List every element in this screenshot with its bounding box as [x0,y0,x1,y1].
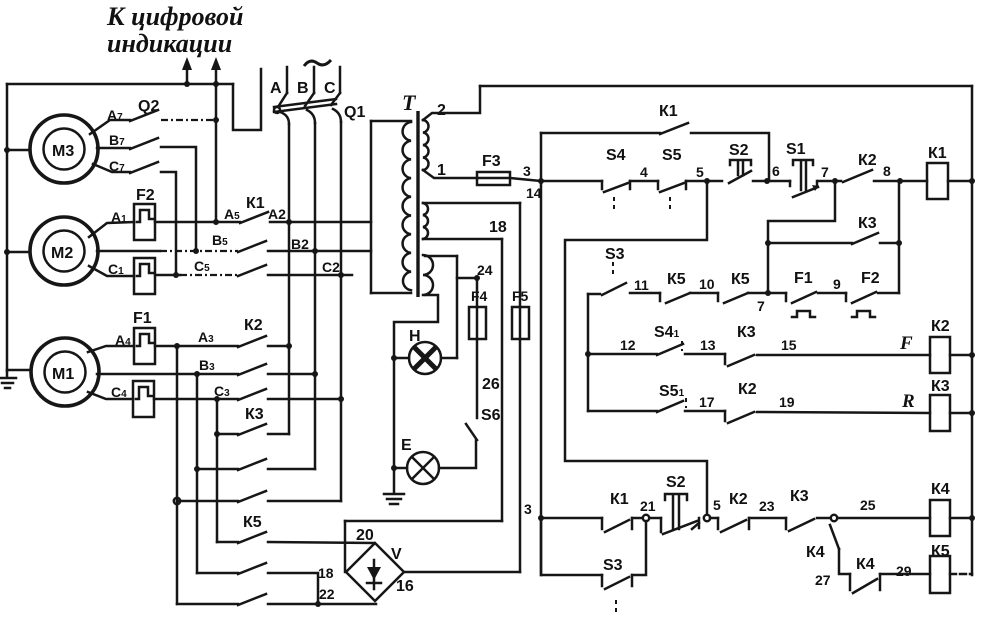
node: arrow junction left [184,81,190,87]
wire: F1 to F2 [818,292,846,295]
svg-text:S6: S6 [481,407,501,424]
wire: E left lead [394,467,407,470]
wire: M2 to rail [7,251,30,254]
svg-text:10: 10 [699,276,715,292]
svg-text:К4: К4 [856,556,875,573]
node: riser tap 12 [585,351,591,357]
contact K1 bottom [602,518,632,532]
svg-text:S2: S2 [666,474,686,491]
fuse F4 [469,307,486,339]
node 6 [764,178,770,184]
column A2 [288,124,291,346]
node 7 [832,178,838,184]
svg-text:S1: S1 [786,141,806,158]
wire: H right lead [441,357,457,360]
wire: indication tap down to A5 row [215,84,218,222]
svg-text:T: T [402,90,417,115]
svg-text:27: 27 [815,572,831,588]
wire: right supply rail [971,86,974,575]
node: A2 junction [286,219,292,225]
node: M3 rail junction [4,147,10,153]
svg-text:5: 5 [696,164,704,180]
wire: node21 to S2 [650,517,661,520]
svg-text:24: 24 [477,262,493,278]
switch S5 aux [657,398,686,412]
svg-text:1: 1 [437,162,446,179]
wire: C5 row dashed part [180,274,238,276]
contact K5 pole 1 [217,532,374,543]
svg-text:Е: Е [401,437,412,454]
svg-text:С2: С2 [322,259,340,275]
svg-text:F1: F1 [133,310,152,327]
wire: S4 to K3 contact [685,353,725,356]
wire: node 8 column down [898,181,901,293]
wire: C3 row [154,398,238,401]
contact K2 NC [725,411,754,423]
wire: S5 to node 5 [686,180,722,183]
svg-text:F: F [899,333,913,354]
arrow to digital indication (left) [182,57,192,84]
switch Q1 disconnector blades and tie bar [274,93,341,124]
svg-text:3: 3 [524,501,532,517]
node: arrow junction right [213,81,219,87]
wire: K3 branch to node 8 column [880,242,899,245]
svg-text:3: 3 [523,163,531,179]
contact K2 bottom [718,518,749,532]
svg-text:К3: К3 [858,215,877,232]
wire: node 7 drop to K3 branch [768,181,835,293]
svg-text:К3: К3 [790,488,809,505]
svg-text:23: 23 [759,498,775,514]
node: rail at K4 [969,515,975,521]
switch S6 [466,424,477,440]
svg-text:12: 12 [620,337,636,353]
coil K3 [930,395,950,431]
wire: M1 to rail/ground [7,369,31,372]
wire: rung 12 [588,353,657,356]
svg-text:9: 9 [833,276,841,292]
wire: B5 row dashed part [160,250,238,252]
wire: 15 to K2 coil [757,354,930,357]
wire: bottom rung start [541,517,602,520]
wire: A3 row [155,345,238,348]
wire: M3 to rail [7,149,30,152]
node: column at K3 branch [896,240,902,246]
column B3 [196,374,199,573]
svg-text:F2: F2 [861,270,880,287]
wire: S5 to K2 contact [685,410,725,413]
wire: K5a to K5b [690,292,718,295]
contact K2 pole C [238,389,266,400]
contact K3 (NC interlock) [852,233,878,244]
contact K1 pole C [238,265,266,276]
node 25 (terminal) [831,515,837,521]
svg-text:К цифровой: К цифровой [106,2,243,31]
svg-text:К1: К1 [246,195,265,212]
node: lamp rail top [391,355,397,361]
contact K2 pole B [238,364,266,375]
pushbutton S2 (stop, NC) [729,160,751,183]
wire: bridge DC out 16 [404,571,520,574]
left ground rail [6,84,9,371]
wire: K4 branch down [839,549,850,574]
wire: column to bridge AC (via 521) [501,239,504,521]
wire: control left rail (net 3/14) [540,133,543,575]
wire: S6 to E lamp [439,440,476,468]
wire: winding2 top lead to F5 column [423,202,520,205]
wire: F3 to node 3 [510,178,541,181]
coil K2 [930,337,950,373]
wire: 24 node to F4 [476,278,479,307]
wire: M2 phase B row [97,250,160,253]
node: rail at K3 [969,410,975,416]
thermal contact F1 [786,292,816,317]
wire: F5 column upper [519,203,522,307]
node 3/14 [538,178,544,184]
svg-text:17: 17 [699,394,715,410]
node: C2 junction [338,272,344,278]
svg-text:индикации: индикации [107,29,232,58]
node: indication tap on A5 row [213,219,219,225]
node: K5 pole2/pole3 merge [315,601,321,607]
wire: 25 to K4 coil [838,517,930,520]
motor M3 [30,115,98,183]
svg-text:М2: М2 [51,245,73,262]
svg-text:К2: К2 [729,491,748,508]
wire: A7 row (dash-dot) to indication tap [161,119,216,121]
svg-text:2: 2 [437,102,446,119]
wire: control top bus [480,85,972,88]
svg-text:13: 13 [700,337,716,353]
wire: C5 row fuse to contact [155,274,180,277]
wire: M1 phase A lead to fuse [88,346,134,352]
wire: M2 phase C lead to fuse [89,266,134,276]
svg-text:S4: S4 [606,147,626,164]
svg-text:К5: К5 [731,271,750,288]
svg-text:S5: S5 [662,147,682,164]
column B2 [314,123,317,374]
svg-text:К1: К1 [928,145,947,162]
wire: S4 to S5 [630,180,658,183]
contact K3 pole 3 [177,491,341,502]
svg-text:К2: К2 [931,318,950,335]
svg-text:11: 11 [634,277,649,293]
svg-text:К3: К3 [245,406,264,423]
svg-text:К1: К1 [659,103,678,120]
column A3 [176,346,179,604]
column C3 [216,399,219,542]
node: B3 column junction [194,371,200,377]
svg-text:S3: S3 [605,246,625,263]
transformer secondary winding 1 (terminals 2-1) [423,120,429,170]
wire: S3 bypass rejoin node 21 [632,521,646,575]
contact K4 [850,574,880,593]
svg-text:5: 5 [713,497,721,513]
node: rail at K2 [969,352,975,358]
wire: K5 coil to rail [950,573,972,576]
wire: K1 out to B2 column [268,250,371,253]
wire: F2 out to node8 column [878,292,899,295]
svg-text:14: 14 [526,185,542,201]
node: K2a/A2 junction [286,343,292,349]
svg-text:19: 19 [779,394,795,410]
wire: K3 to node 25 [817,517,830,520]
wire: node5 to K2 [710,517,718,520]
wire: node5 jog down-left [565,181,707,514]
svg-text:20: 20 [356,527,374,544]
wire: main rung from node 3 [541,180,602,183]
svg-text:7: 7 [757,298,765,314]
wire: K2 coil to rail [950,354,972,357]
coil K5 [930,556,950,593]
wire: K2c out to C2 column bottom [268,398,341,401]
svg-text:R: R [901,391,915,412]
svg-text:К4: К4 [806,544,825,561]
wire: A2 row to transformer primary [289,221,371,224]
svg-text:К2: К2 [244,317,263,334]
wire: M1 phase B row [97,373,238,376]
wire: lamp ground rail [393,358,396,468]
transformer T core [416,111,419,297]
wire: F5 column to bridge DC (16) [519,339,522,572]
svg-text:A2: A2 [268,206,286,222]
lamp H [409,342,441,374]
wire: K5b to node 7 lower [748,292,786,295]
wire: S1 to node 7 [818,180,841,183]
node: K2c/C2 junction [338,396,344,402]
wire: K2a out to A2 column bottom [268,345,289,348]
wire: K2b out to B2 column bottom [268,373,315,376]
contact K1 pole A [240,212,268,223]
pushbutton S1 (start, NO) [768,160,819,197]
wire: K3c out up C2 column [340,399,343,501]
wire: K2 to K3 [749,517,786,520]
node: K3b input [194,466,200,472]
transformer secondary winding 2 (18 V) [423,203,428,239]
contact K3 pole 1 [217,424,289,435]
svg-text:К2: К2 [738,381,757,398]
svg-text:С: С [324,80,336,97]
svg-text:22: 22 [319,586,335,602]
fuse F2 (phase A of M2) [134,204,155,240]
svg-text:18: 18 [489,219,507,236]
contact K5 pole 2 [197,563,318,604]
wire: winding2 bottom lead [423,238,502,241]
node: E junction [391,465,397,471]
node 24 [474,275,480,281]
bridge rectifier V [346,543,404,601]
wire: primary side vertical [370,121,373,293]
wire: S3 out [630,292,660,295]
svg-text:К3: К3 [931,378,950,395]
svg-text:К5: К5 [667,271,686,288]
svg-text:К4: К4 [931,481,950,498]
svg-text:6: 6 [772,163,780,179]
node: K3 branch tap [765,240,771,246]
svg-text:25: 25 [860,497,876,513]
switch S4 (limit) [602,181,630,213]
contact K5 b [718,293,748,303]
fuse F2 (phase C of M2) [134,258,155,294]
node 5 [704,178,710,184]
svg-text:21: 21 [640,498,656,514]
svg-text:F4: F4 [471,288,488,304]
node 21 (terminal) [643,515,649,521]
svg-text:К5: К5 [931,543,950,560]
switch Q2 pole C7 [93,162,158,173]
svg-text:F1: F1 [794,270,813,287]
wire: bus zig to right [233,69,261,130]
svg-text:F2: F2 [136,187,155,204]
wire: 19 to K3 coil [757,412,930,413]
wire: S2 to node 6 [753,180,768,183]
contact K2 (NC interlock) [843,170,872,182]
thermal contact F2 [846,292,876,317]
pushbutton S2 double [661,494,699,534]
contact K3 bottom [786,518,814,531]
phase input bar C [339,67,342,93]
switch S5 (limit) [658,181,686,213]
wire: K1 out to A2 column [270,221,289,224]
svg-text:15: 15 [781,337,797,353]
wire: 24 node link [457,277,477,280]
svg-text:A: A [270,80,282,97]
node 7 lower [765,290,771,296]
switch S3 bottom [602,575,632,613]
svg-text:S2: S2 [729,142,749,159]
wire: C7 row to C5 column [161,172,176,275]
column C2 [340,122,343,399]
node 5 bottom (terminal) [704,515,710,521]
wire: K1 coil to rail [948,180,972,183]
contact K3 pole 2 [197,459,315,470]
wire: winding3 bottom lead to ground net [394,295,438,358]
svg-text:К3: К3 [737,324,756,341]
coil K1 [927,163,948,199]
coil K4 [930,500,950,536]
wire: terminal 1 to fuse F3 [423,170,477,178]
node: A3 column junction [174,343,180,349]
svg-text:29: 29 [896,563,912,579]
wire: H left lead [394,357,409,360]
node: K3c input (terminal circle) [174,498,180,504]
wire: S3 bypass from node 3 [541,518,602,575]
contact K3 NC [725,354,754,366]
svg-text:К2: К2 [858,152,877,169]
svg-text:К5: К5 [243,514,262,531]
contact K4 selector [830,525,839,549]
switch S3 (with K5 rung) [588,262,626,295]
wire: A5 row fuse to K1 [155,221,240,224]
wire: 29 to K5 coil [880,573,930,576]
svg-text:М3: М3 [52,143,74,160]
wire: primary bottom lead [371,292,411,295]
svg-text:К1: К1 [610,491,629,508]
wire: rung 17 [588,410,657,413]
wire: primary top lead [371,120,411,123]
wire: K4 coil to rail [950,517,972,520]
node: rail at K1 [969,178,975,184]
wire: winding3 top lead [425,255,457,258]
wire: F4 to S6 (26) [476,339,479,418]
node: tap on A7 row [213,117,219,123]
switch S4 aux [657,341,683,355]
ground (left rail) [0,371,16,388]
svg-text:S3: S3 [603,557,623,574]
node: C7 tap on C5 row [173,272,179,278]
svg-text:M1: M1 [52,366,74,383]
svg-text:8: 8 [883,163,891,179]
svg-text:В: В [297,80,309,97]
wire: M1 phase C lead to fuse [88,392,133,399]
wire: top-left bus [7,83,233,86]
caption: К цифровой индикации [106,2,243,58]
arrow to digital indication (right) [211,57,221,84]
switch Q2 pole B7 [97,138,158,149]
wire: K3b out up B2 column [314,374,317,469]
svg-text:В2: В2 [291,236,309,252]
wire: K1 bypass right to node 6 [691,133,769,181]
node: M2 rail junction [4,249,10,255]
wire: bridge AC feed (20 net) [345,520,502,523]
ground (lamp circuit) [384,468,404,504]
transformer secondary winding 3 (terminal 24) [423,255,433,295]
svg-text:Q1: Q1 [344,104,365,121]
node: B7 tap on B5 row [193,248,199,254]
node: C3 column junction [214,396,220,402]
svg-text:4: 4 [640,164,648,180]
wire: K1 bypass left [541,132,660,135]
fuse F1 (phase C of M1) [133,381,154,417]
contact K2 pole A [238,336,266,347]
fuse F5 [512,307,529,339]
svg-text:26: 26 [482,376,500,393]
contact K5 pole 3 [177,594,376,605]
node: K2b/B2 junction [312,371,318,377]
node: K3a input [214,431,220,437]
svg-text:16: 16 [396,578,414,595]
wire: terminal 2 to top bus [423,86,480,120]
wire: H lamp right riser [456,256,459,358]
svg-text:7: 7 [821,164,829,180]
motor M2 [30,217,98,285]
label ~ (AC) [304,60,331,66]
wire: K3 branch line [768,242,852,245]
wire: K1 out to C2 column [268,274,352,277]
wire: K3 coil to rail [950,412,972,415]
node: B2 junction [312,248,318,254]
node 8 [897,178,903,184]
contact K1 (holding) [660,123,688,134]
wire: AC riser to diamond left corner [344,521,347,572]
transformer T primary winding [403,122,411,290]
wire: rung riser x588 [587,294,590,411]
switch Q2 pole A7 [90,110,158,134]
contact K5 a [660,293,690,303]
wire: K2 to node 8 [874,180,927,183]
fuse F1 (phase A of M1) [134,328,155,364]
svg-text:F3: F3 [482,153,501,170]
wire: K3a out up A2 column [288,346,291,434]
lamp E [407,452,439,484]
phase input bar A [286,67,289,93]
wire: K1 to node 21 [632,517,642,520]
wire: B7 row to B5 column [161,147,196,251]
motor M1 [31,338,99,406]
phase input bar B [313,67,316,93]
node 3 bottom [538,515,544,521]
svg-text:18: 18 [318,565,334,581]
